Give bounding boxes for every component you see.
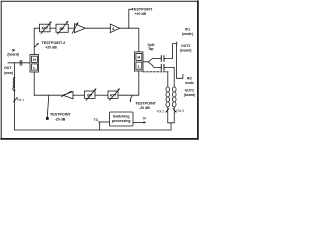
node OUT (mon) label <box>4 66 13 75</box>
svg-text:IF2: IF2 <box>187 77 192 81</box>
node TC input <box>94 118 99 122</box>
svg-text:(mode): (mode) <box>182 32 193 36</box>
label TP (output) <box>142 117 146 121</box>
wire: A3 output to U1 <box>34 94 63 96</box>
svg-text:TESTPOINT: TESTPOINT <box>132 7 153 11</box>
amplifier A1 (variable) <box>75 24 86 33</box>
label IF1 (mode) <box>182 28 193 36</box>
wire: tap down to IF2 <box>176 45 182 78</box>
svg-text:OUT2: OUT2 <box>185 89 194 93</box>
svg-text:H: H <box>137 55 140 60</box>
wire: box output arrow <box>133 121 144 123</box>
testpoint arrow TP4 <box>130 96 132 101</box>
svg-text:+20 dB: +20 dB <box>45 45 57 49</box>
dashed wire: U2 to transformer secondary top <box>143 71 168 73</box>
testpoint TP3 stem <box>47 95 49 117</box>
testpoint TP3 pad <box>46 117 49 120</box>
svg-text:TP: TP <box>142 117 146 121</box>
box Switching processing <box>110 112 134 126</box>
node IF (board) input label <box>7 47 19 56</box>
svg-text:processing: processing <box>112 119 131 123</box>
label TESTPOINT +20 dB <box>132 7 153 16</box>
diplexer U1 (H/L box, left) <box>30 55 39 73</box>
wire: U1 top to TX chain <box>34 28 39 54</box>
wire: bottom bus <box>15 129 172 131</box>
label OUT2 (board) <box>184 89 195 97</box>
svg-text:OUT1: OUT1 <box>181 44 190 48</box>
svg-text:(board): (board) <box>7 53 19 57</box>
wire: branch down to bus <box>99 122 101 130</box>
svg-text:Pot 2: Pot 2 <box>157 110 165 114</box>
attenuator ATT2 <box>108 91 118 98</box>
wire: A2 output to Split Tap <box>120 28 139 52</box>
svg-text:TESTPOINT-2: TESTPOINT-2 <box>42 41 66 45</box>
wire: branch down to monitor output <box>14 63 16 78</box>
svg-text:(board): (board) <box>180 49 191 53</box>
wire to C1 <box>152 58 161 60</box>
amplifier A2 <box>110 24 119 33</box>
svg-text:(board): (board) <box>184 93 195 97</box>
wire: C2 to transformer primary <box>164 67 174 87</box>
svg-text:-20 dB: -20 dB <box>139 106 150 110</box>
svg-text:Pot 1: Pot 1 <box>17 98 25 102</box>
wires: coil bottoms to bar <box>168 107 175 130</box>
svg-text:TC: TC <box>94 118 99 122</box>
wire: IF input horizontal <box>8 62 30 64</box>
diplexer U2 Split Tap (H/L box, right) <box>134 52 143 71</box>
svg-text:(mon): (mon) <box>4 71 13 75</box>
svg-text:OUT: OUT <box>4 66 12 70</box>
splitter wires <box>143 59 152 66</box>
svg-text:TESTPOINT: TESTPOINT <box>135 101 156 105</box>
label TESTPOINT -20 dB (left) <box>50 113 71 122</box>
wire: RX chain from U2 bottom <box>118 71 139 95</box>
wire <box>68 27 74 29</box>
filter BP1 <box>56 24 68 32</box>
potentiometer Pot 3 arrow <box>173 109 176 112</box>
svg-text:-20 dB: -20 dB <box>55 117 66 121</box>
wire <box>73 94 85 96</box>
wire: TC to box <box>99 121 110 123</box>
testpoint arrow TP2 <box>35 44 38 47</box>
connector J1 ticks on IF input wire <box>20 60 22 65</box>
wire <box>95 94 108 96</box>
label IF2 mode <box>185 77 194 86</box>
label TESTPOINT-2 +20 dB <box>42 41 66 49</box>
border frame <box>1 1 198 139</box>
svg-text:Switching: Switching <box>113 115 130 119</box>
label OUT1 (board) <box>180 44 191 52</box>
wire: C1 to OUT1 <box>164 44 176 59</box>
wire to C2 <box>152 65 161 67</box>
transformer T1 primary coil <box>166 87 170 107</box>
svg-text:mode: mode <box>185 81 194 85</box>
connector tick IF2 <box>182 74 184 78</box>
label TESTPOINT -20 dB (right) <box>135 101 156 110</box>
transformer T1 secondary coil <box>172 87 176 107</box>
inductor L1 <box>13 78 15 91</box>
wire <box>50 27 56 29</box>
wire: U1 bottom to RX chain <box>33 72 35 95</box>
svg-text:+20 dB: +20 dB <box>135 12 147 16</box>
svg-text:TESTPOINT: TESTPOINT <box>50 113 71 117</box>
filter BP2 <box>85 91 96 98</box>
capacitor C1 <box>161 56 164 62</box>
potentiometer Pot 1 arrow <box>14 97 17 101</box>
potentiometer Pot 2 arrow <box>166 109 169 112</box>
svg-text:H: H <box>33 57 36 62</box>
wire <box>85 27 110 29</box>
label Split Tap <box>148 43 156 51</box>
svg-text:Pot 3: Pot 3 <box>176 109 184 113</box>
connector tick OUT1 <box>176 42 178 45</box>
capacitor C2 <box>161 65 164 71</box>
testpoint TP1 stem <box>129 9 132 28</box>
amplifier A3 (variable, points left) <box>63 92 73 99</box>
svg-text:Tap: Tap <box>148 47 153 51</box>
attenuator ATT1 <box>40 24 51 32</box>
